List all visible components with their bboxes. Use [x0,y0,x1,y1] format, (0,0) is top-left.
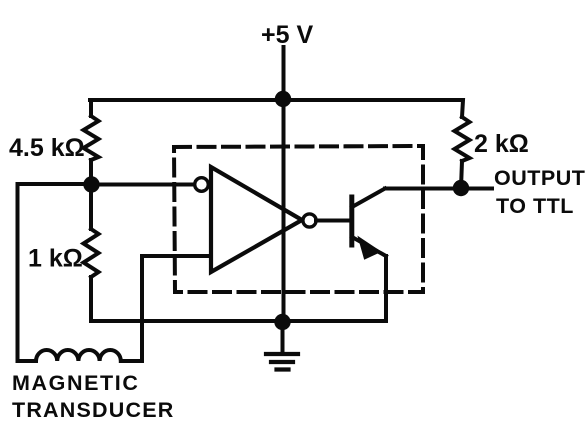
wire 4.5k bottom lead [89,160,93,184]
node A input node [83,176,99,192]
resistor 1 kOhm [84,229,99,277]
svg-text:+5 V: +5 V [261,21,313,49]
svg-text:2 kΩ: 2 kΩ [474,130,529,158]
op-amp comparator triangle [211,167,302,272]
wire top rail left [90,98,283,102]
wire output stub [461,187,492,191]
resistor 2 kOhm [455,117,470,161]
wire center rail (supply to ground node) [282,100,286,322]
wire 1k bottom lead [89,277,93,321]
wire +5V supply drop [282,47,286,100]
svg-text:1 kΩ: 1 kΩ [28,245,83,273]
ground [266,322,298,370]
inverting input bubble [195,178,209,192]
node ground junction [274,314,290,330]
svg-text:4.5 kΩ: 4.5 kΩ [9,134,85,162]
node supply junction [275,91,291,107]
svg-text:TO TTL: TO TTL [496,194,574,218]
resistor 4.5 kOhm [84,116,99,160]
wire collector to output node [385,187,461,191]
wire node A to transducer (left branch) [18,184,92,361]
svg-text:OUTPUT: OUTPUT [494,166,585,190]
output bubble [303,214,316,227]
wire 2k bottom lead [461,161,462,188]
wire 4.5k top lead [89,100,93,116]
node output junction [453,180,469,196]
svg-text:MAGNETIC: MAGNETIC [12,371,139,395]
wire 1k top lead [89,184,93,229]
wire bottom rail to emitter [91,319,386,323]
wire node A to op-amp inverting input [91,183,195,187]
svg-text:TRANSDUCER: TRANSDUCER [12,398,175,422]
wire op-amp output to transistor base [316,219,350,223]
dashed IC boundary box [174,146,423,292]
wire top rail right [283,100,463,117]
inductor magnetic transducer [18,350,143,361]
transistor Q1 [352,189,386,259]
wire transducer to op-amp non-inverting input [142,256,209,361]
wire emitter to bottom rail [384,256,388,321]
